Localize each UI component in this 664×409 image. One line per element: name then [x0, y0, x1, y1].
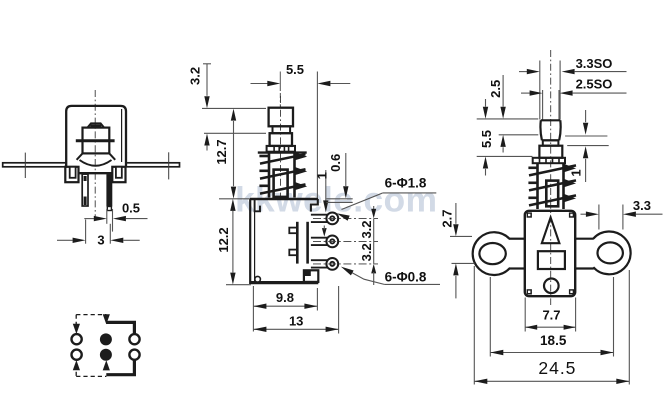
wire top to pin 3 — [106, 322, 134, 333]
right body square — [538, 251, 565, 269]
middle plunger stem — [274, 170, 288, 197]
svg-text:1: 1 — [569, 169, 584, 176]
dimension 1 (terminal) — [325, 170, 327, 201]
dimension 5.5 right view — [477, 155, 533, 157]
dimension 5.5 top — [279, 72, 281, 92]
pin arrow bottom-middle — [103, 360, 110, 370]
dimension 3.2 top-left — [203, 63, 211, 65]
svg-text:2.5: 2.5 — [488, 80, 503, 98]
dimension 24.5 — [473, 266, 475, 385]
right body circle — [544, 279, 559, 294]
svg-text:3.2: 3.2 — [188, 67, 203, 85]
dimension 13 — [338, 286, 340, 334]
left ear hole — [479, 243, 505, 264]
terminal centerline — [313, 240, 378, 242]
dimension 3.3SO — [526, 71, 528, 73]
middle button neck — [273, 126, 291, 133]
dimension 9.8 — [252, 286, 254, 332]
terminal 2 — [311, 237, 328, 239]
front view body — [66, 106, 126, 167]
dimension 12.2 — [219, 198, 250, 200]
middle body outline — [250, 198, 318, 200]
svg-text:3: 3 — [97, 233, 104, 248]
mounting bracket left arm — [3, 163, 66, 167]
right ear hole — [598, 242, 623, 263]
svg-text:7.7: 7.7 — [542, 308, 560, 323]
svg-text:3.3: 3.3 — [633, 198, 651, 213]
svg-text:6-Φ0.8: 6-Φ0.8 — [385, 269, 427, 284]
dimension 3.2 3.2 terminals — [373, 206, 375, 210]
svg-text:0.6: 0.6 — [328, 154, 343, 172]
right ear — [593, 232, 630, 275]
terminal 3 — [311, 259, 328, 261]
mounting bracket right arm — [126, 163, 180, 167]
common pin bottom (filled) — [100, 349, 112, 361]
middle button base — [270, 133, 292, 146]
svg-text:13: 13 — [289, 313, 303, 328]
right button base — [539, 146, 562, 158]
front view plunger cap — [88, 123, 105, 127]
bracket hole centerline left — [24, 153, 26, 178]
terminal centerline — [313, 217, 378, 219]
left ear — [473, 232, 510, 275]
svg-text:18.5: 18.5 — [540, 333, 567, 348]
middle body bottom hole — [255, 276, 261, 282]
right body triangle — [542, 218, 560, 244]
pin diagram dashed frame — [76, 314, 106, 316]
right view centerline — [550, 50, 552, 305]
front view plunger flange — [76, 139, 115, 142]
middle body bottom — [251, 281, 318, 284]
terminal centerline — [313, 263, 378, 265]
svg-text:24.5: 24.5 — [538, 358, 576, 378]
front view dome — [80, 160, 112, 166]
svg-text:6-Φ1.8: 6-Φ1.8 — [385, 175, 427, 190]
pin 1 (top-left) — [72, 334, 82, 344]
corner rivets — [527, 212, 532, 217]
dimension 18.5 — [489, 277, 491, 357]
middle terminal block — [296, 222, 299, 264]
front view plunger cylinder — [83, 128, 110, 154]
dimension 12.7 — [233, 121, 235, 186]
middle spring thread section — [258, 151, 307, 153]
right spring thread section — [536, 163, 539, 209]
wire bottom to pin 4 — [106, 360, 134, 374]
front view bottom plate — [79, 172, 113, 174]
dimension 2.7 — [455, 203, 457, 224]
svg-text:5.5: 5.5 — [286, 62, 304, 77]
dimension 0.5 — [106, 209, 108, 224]
dimension 0.6 — [326, 198, 352, 200]
svg-text:3.2: 3.2 — [359, 220, 374, 238]
middle button cap — [269, 108, 293, 127]
dimension 1 right — [585, 110, 587, 122]
dimension 3 — [85, 220, 87, 244]
terminal 1 — [311, 214, 328, 216]
svg-text:12.7: 12.7 — [214, 139, 229, 164]
dimension 7.7 — [524, 298, 526, 332]
svg-text:5.5: 5.5 — [479, 130, 494, 148]
right plunger stem — [546, 181, 558, 207]
middle body top-left notch — [255, 199, 260, 211]
svg-text:2.7: 2.7 — [439, 210, 454, 228]
svg-text:2.5SO: 2.5SO — [576, 77, 613, 92]
svg-text:9.8: 9.8 — [276, 290, 294, 305]
front view plunger flare — [77, 153, 83, 159]
pin arrow bottom-left — [73, 360, 80, 370]
svg-text:3.2: 3.2 — [359, 243, 374, 261]
svg-text:12.2: 12.2 — [216, 227, 231, 252]
right button neck — [543, 140, 559, 145]
right shaft extension lines — [539, 61, 541, 120]
pin 2 (bottom-left) — [72, 350, 82, 360]
left pin (hollow) — [82, 174, 88, 206]
front view centerline — [94, 90, 96, 218]
svg-text:3.3SO: 3.3SO — [576, 56, 613, 71]
right button cap — [540, 120, 560, 140]
middle view centerline — [280, 96, 282, 200]
dimension 2.5 right view — [477, 118, 539, 120]
common pin top (filled) — [100, 333, 112, 345]
bracket hole centerline right — [168, 152, 170, 179]
dimension 3.3 right — [598, 205, 600, 230]
svg-text:0.5: 0.5 — [122, 201, 140, 216]
front view lower housing left foot — [65, 167, 78, 182]
middle body right edge top — [311, 199, 318, 212]
right body outline — [525, 211, 575, 296]
pin 3 (top-right) — [129, 334, 139, 344]
dimension 2.5SO — [521, 92, 530, 94]
right knurl flange — [533, 158, 565, 163]
front view lower housing right foot — [112, 167, 125, 182]
middle knurl flange — [267, 146, 295, 152]
pin arrow top-middle — [103, 314, 110, 324]
pin 4 (bottom-right) — [129, 350, 139, 360]
svg-text:1: 1 — [314, 172, 329, 179]
right pin (solid) — [106, 174, 112, 206]
pin arrow top-left — [73, 324, 80, 334]
middle body bottom-right foot — [304, 270, 318, 282]
